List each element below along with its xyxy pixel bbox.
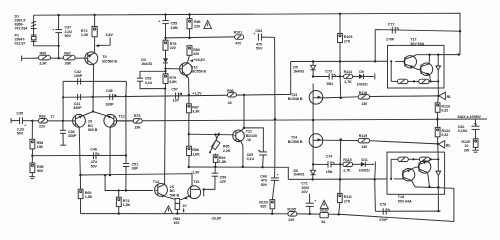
svg-text:2,2K: 2,2K bbox=[223, 149, 231, 153]
svg-text:10M: 10M bbox=[171, 26, 178, 30]
node C53 bottom bbox=[164, 88, 166, 90]
diode bottom box bbox=[436, 171, 441, 175]
svg-text:R63: R63 bbox=[39, 114, 46, 118]
svg-text:1N4151: 1N4151 bbox=[357, 82, 368, 86]
svg-text:2W: 2W bbox=[464, 148, 470, 152]
zobel C82 bbox=[475, 119, 477, 126]
wire mirror rail W2 y=167 with step bbox=[189, 167, 288, 179]
node T21 base bbox=[188, 133, 190, 135]
svg-text:3,3K: 3,3K bbox=[39, 61, 47, 65]
svg-text:1,6K: 1,6K bbox=[192, 152, 200, 156]
svg-text:0,1U: 0,1U bbox=[247, 157, 255, 161]
svg-text:BL: BL bbox=[446, 143, 452, 147]
svg-text:R105: R105 bbox=[287, 207, 296, 211]
svg-text:R119: R119 bbox=[359, 134, 367, 138]
svg-text:0,15U: 0,15U bbox=[458, 129, 468, 133]
svg-text:220: 220 bbox=[288, 218, 294, 222]
wire chain2 bbox=[313, 163, 328, 165]
wire bottom supply rail -23.8V bbox=[81, 213, 289, 215]
capacitor C59 branch bbox=[214, 167, 216, 173]
capacitor C46 bbox=[92, 152, 94, 159]
svg-text:15N: 15N bbox=[326, 170, 333, 174]
node C46 right x126 bbox=[125, 154, 127, 156]
svg-text:15N: 15N bbox=[326, 82, 333, 86]
resistor R76 feedback bbox=[117, 120, 134, 122]
svg-text:C57: C57 bbox=[171, 88, 178, 92]
svg-text:560: 560 bbox=[37, 169, 43, 173]
svg-text:+23,8V: +23,8V bbox=[194, 58, 206, 62]
svg-text:50V: 50V bbox=[256, 47, 263, 51]
wire C42 bypass loop bbox=[63, 80, 126, 82]
svg-text:220: 220 bbox=[39, 125, 45, 129]
warning triangle R83 bbox=[164, 206, 172, 214]
svg-text:-16: -16 bbox=[246, 138, 251, 142]
svg-text:R65: R65 bbox=[40, 51, 47, 55]
svg-text:6,8K: 6,8K bbox=[169, 80, 177, 84]
svg-text:1V: 1V bbox=[182, 204, 187, 208]
node rail120 base tie bbox=[312, 119, 314, 121]
resistor R98 bbox=[227, 93, 236, 97]
svg-text:50V: 50V bbox=[65, 34, 72, 38]
capacitor C41 bbox=[77, 94, 79, 100]
wire T7 collector bbox=[79, 127, 80, 175]
capacitor C38 with ground bbox=[62, 121, 64, 130]
capacitor C55 polarized bbox=[164, 13, 166, 15]
emitter resistor pills top box bbox=[391, 80, 397, 82]
node output rail bbox=[436, 118, 439, 121]
transistor T12 bbox=[104, 114, 117, 127]
resistor R110 bbox=[339, 13, 341, 15]
svg-text:T24: T24 bbox=[291, 135, 298, 139]
node input base joint bbox=[31, 120, 33, 122]
svg-text:1N4001: 1N4001 bbox=[293, 173, 304, 177]
wire collector rail bottom box bbox=[415, 187, 454, 188]
svg-text:220: 220 bbox=[170, 46, 176, 50]
resistor R74 bbox=[118, 189, 120, 191]
svg-text:C35: C35 bbox=[16, 112, 23, 116]
svg-text:0,32: 0,32 bbox=[441, 133, 448, 137]
svg-text:T14: T14 bbox=[153, 180, 160, 184]
svg-text:27K: 27K bbox=[344, 39, 351, 43]
svg-text:10V: 10V bbox=[301, 190, 308, 194]
wire x375 lower bbox=[374, 178, 376, 180]
transistor T17b output bbox=[420, 63, 432, 75]
svg-text:T7: T7 bbox=[50, 115, 54, 119]
svg-text:BC558 B: BC558 B bbox=[288, 140, 303, 144]
svg-text:RL: RL bbox=[447, 95, 453, 99]
svg-text:1,5K: 1,5K bbox=[123, 203, 131, 207]
svg-text:6,8V: 6,8V bbox=[106, 33, 114, 37]
wire box to speaker node bbox=[437, 81, 439, 96]
node W1 T21 collector bbox=[243, 94, 245, 96]
svg-text:33P: 33P bbox=[132, 167, 139, 171]
svg-text:T16: T16 bbox=[193, 180, 199, 184]
capacitor C73 bbox=[328, 73, 330, 79]
svg-text:1,3K: 1,3K bbox=[81, 33, 89, 37]
wire left input leg bbox=[34, 15, 59, 58]
svg-text:13K: 13K bbox=[37, 145, 44, 149]
svg-text:C78: C78 bbox=[380, 203, 387, 207]
capacitor C37 bbox=[58, 15, 60, 29]
capacitor C57 bbox=[175, 92, 177, 98]
svg-text:+: + bbox=[24, 124, 26, 128]
wire inner bias leg bbox=[390, 60, 392, 62]
wire x126 vertical upper bbox=[125, 81, 128, 96]
resistor R88 bbox=[188, 134, 190, 146]
svg-text:1N4151: 1N4151 bbox=[141, 62, 152, 66]
svg-text:1,5K: 1,5K bbox=[85, 195, 93, 199]
diode D9 bbox=[353, 75, 359, 77]
svg-text:546 B: 546 B bbox=[170, 193, 180, 197]
svg-text:330P: 330P bbox=[68, 134, 77, 138]
svg-text:T12: T12 bbox=[119, 114, 125, 118]
svg-text:560 B: 560 B bbox=[88, 128, 98, 132]
emitter resistor pills bottom box bbox=[391, 158, 398, 160]
node chain2 mid bbox=[339, 163, 341, 165]
svg-text:13K: 13K bbox=[134, 126, 141, 130]
resistor R80 bbox=[187, 46, 192, 56]
resistor R115 bbox=[340, 163, 343, 165]
wire diff emitters bbox=[83, 112, 106, 116]
svg-text:220: 220 bbox=[194, 24, 200, 28]
svg-text:T23: T23 bbox=[291, 93, 297, 97]
resistor R65 bbox=[39, 55, 51, 60]
node C42/C41 leg at base wire bbox=[62, 120, 64, 122]
svg-text:470: 470 bbox=[235, 42, 241, 46]
transistor T23 bbox=[309, 91, 323, 105]
wire x274 vertical bbox=[274, 37, 276, 178]
crystal symbol lower bbox=[31, 34, 37, 36]
transistor T10 bbox=[180, 63, 192, 75]
svg-text:+: + bbox=[314, 199, 316, 203]
resistor R111 bbox=[339, 180, 341, 194]
svg-text:C84: C84 bbox=[255, 29, 263, 33]
svg-text:BC558 B: BC558 B bbox=[191, 70, 206, 74]
wire T14 base line bbox=[105, 175, 153, 190]
svg-text:100: 100 bbox=[173, 221, 179, 225]
wire signal node W1 bbox=[63, 62, 291, 98]
resistor R123 bbox=[437, 96, 440, 103]
svg-text:+: + bbox=[158, 19, 160, 23]
capacitor C65 branch bbox=[244, 128, 263, 152]
wire left collector line L3 bbox=[81, 174, 193, 188]
diode D6 bbox=[311, 178, 313, 180]
svg-text:330P: 330P bbox=[73, 106, 82, 110]
svg-text:+1,2V: +1,2V bbox=[192, 92, 202, 96]
node chain2 left bbox=[312, 163, 314, 165]
svg-text:0,1U: 0,1U bbox=[145, 81, 153, 85]
resistor R59 with ground bbox=[31, 156, 33, 163]
capacitor C84 bbox=[257, 33, 259, 40]
svg-text:1,8K: 1,8K bbox=[219, 160, 227, 164]
node left leg W1 bbox=[58, 45, 60, 47]
capacitor C48 bbox=[109, 94, 111, 100]
wire box to C78 node bbox=[437, 187, 439, 211]
capacitor C53 bbox=[140, 71, 166, 78]
svg-text:47P: 47P bbox=[220, 180, 227, 184]
wire output rail y=120 bbox=[117, 119, 487, 121]
node W1 left bbox=[62, 96, 64, 98]
svg-text:270P: 270P bbox=[386, 37, 395, 41]
diode D5 bbox=[312, 62, 314, 66]
resistor R119 bbox=[323, 139, 359, 141]
node T10 base tap bbox=[164, 68, 166, 70]
svg-text:R101: R101 bbox=[234, 31, 243, 35]
wire T14 collector long bbox=[164, 89, 167, 185]
wire y38 R101/C84 bbox=[166, 37, 235, 38]
wire chain1 bbox=[313, 76, 329, 78]
svg-text:+: + bbox=[52, 28, 54, 32]
svg-text:C48: C48 bbox=[106, 89, 113, 93]
wire top supply rail +23.8V bbox=[34, 13, 460, 54]
svg-text:2,7K: 2,7K bbox=[343, 169, 351, 173]
svg-text:BC560 B: BC560 B bbox=[102, 59, 117, 63]
transistor T17a driver bbox=[404, 56, 416, 68]
node chain1 mid bbox=[339, 75, 341, 77]
resistor R105 in rail bbox=[288, 212, 297, 217]
svg-text:50V 64A: 50V 64A bbox=[398, 199, 412, 203]
wire T21 collector up bbox=[241, 95, 244, 131]
svg-text:130: 130 bbox=[361, 102, 367, 106]
wire T21 base bbox=[189, 133, 234, 136]
svg-text:50V: 50V bbox=[17, 132, 24, 136]
svg-text:+: + bbox=[277, 173, 279, 177]
wire C78 branch bbox=[375, 210, 440, 212]
svg-text:82: 82 bbox=[321, 220, 325, 224]
transistor T18a driver bbox=[402, 169, 414, 181]
resistor R79 bbox=[163, 74, 168, 84]
svg-text:50V: 50V bbox=[91, 164, 98, 168]
node chain1 left bbox=[312, 75, 314, 77]
capacitor C77 bbox=[391, 27, 393, 34]
wire x375 top bbox=[374, 60, 376, 62]
svg-text:1N4001: 1N4001 bbox=[293, 69, 304, 73]
svg-text:BC548 B: BC548 B bbox=[288, 97, 303, 101]
resistor R114 bbox=[340, 75, 344, 77]
svg-text:R115: R115 bbox=[343, 158, 351, 162]
wire R67 to T9 base bbox=[75, 57, 85, 59]
svg-text:C46: C46 bbox=[90, 148, 97, 152]
svg-text:50V 65A: 50V 65A bbox=[410, 42, 424, 46]
potentiometer R95 bbox=[215, 135, 216, 139]
svg-text:50V: 50V bbox=[261, 183, 268, 187]
resistor R87 bbox=[188, 95, 190, 104]
transistor T16 bbox=[188, 186, 201, 199]
transistor T14 bbox=[155, 184, 168, 197]
svg-text:R114: R114 bbox=[344, 70, 353, 74]
speaker terminal RL lower bbox=[437, 143, 439, 145]
capacitor C74 bbox=[327, 161, 329, 167]
wire T12 collector bbox=[109, 127, 111, 175]
resistor R103 bbox=[271, 213, 273, 215]
node W1 T9 emitter cross bbox=[92, 96, 94, 98]
svg-text:3,3K: 3,3K bbox=[192, 110, 200, 114]
resistor R107 with warning bbox=[320, 200, 328, 208]
svg-text:43: 43 bbox=[228, 101, 232, 105]
svg-text:0,32: 0,32 bbox=[441, 109, 448, 113]
svg-text:-1,3V: -1,3V bbox=[191, 170, 200, 174]
resistor R83 bbox=[176, 199, 178, 202]
svg-text:270P: 270P bbox=[379, 218, 388, 222]
svg-text:D9: D9 bbox=[359, 70, 364, 74]
node R78 wire y38 bbox=[164, 37, 166, 39]
node C78 right bbox=[437, 210, 439, 212]
capacitor C51 bbox=[125, 155, 127, 163]
transistor T24 bbox=[309, 134, 323, 148]
svg-text:D11: D11 bbox=[361, 158, 367, 162]
svg-text:767,534: 767,534 bbox=[15, 27, 29, 31]
node C53 top bbox=[164, 70, 166, 72]
svg-text:022,97: 022,97 bbox=[15, 41, 26, 45]
output module T17 box bbox=[388, 45, 445, 88]
resistor R67 bbox=[59, 57, 64, 59]
wire collector rail top box bbox=[417, 54, 459, 56]
transistor T18b output bbox=[418, 161, 430, 173]
output module T18 box bbox=[387, 152, 445, 194]
svg-text:820: 820 bbox=[260, 205, 266, 209]
resistor R124 bbox=[437, 119, 439, 127]
node R111 bottom bbox=[338, 213, 340, 215]
capacitor C78 bbox=[382, 208, 384, 214]
wire C46 branch bbox=[32, 154, 126, 156]
node T14 base wire x126 bbox=[125, 189, 127, 191]
resistor R78 bbox=[163, 40, 168, 50]
svg-text:R98: R98 bbox=[227, 89, 234, 93]
transistor T7 bbox=[73, 114, 86, 127]
svg-text:MAX,±-100MV: MAX,±-100MV bbox=[458, 115, 482, 119]
wire VAS rail lower y=179.4 bbox=[288, 178, 403, 181]
resistor R129 with ground bbox=[473, 139, 478, 148]
svg-text:C73: C73 bbox=[325, 69, 332, 73]
resistor R86 bbox=[188, 13, 190, 15]
svg-text:33K: 33K bbox=[65, 61, 72, 65]
wire T21 emitter down bbox=[241, 141, 243, 166]
wire C77 branch bbox=[375, 30, 460, 32]
wire R63 to T7 base bbox=[47, 120, 72, 122]
speaker terminal RL upper bbox=[439, 92, 446, 99]
wire R65 to node bbox=[50, 57, 58, 59]
node W1 x126 bbox=[125, 95, 127, 97]
capacitor C66 bbox=[271, 177, 279, 179]
svg-text:220: 220 bbox=[193, 52, 199, 56]
svg-text:27K: 27K bbox=[344, 199, 351, 203]
svg-text:330P: 330P bbox=[105, 103, 114, 107]
svg-text:-23,8V: -23,8V bbox=[211, 216, 222, 220]
transistor T21 bbox=[233, 130, 245, 142]
svg-text:R76: R76 bbox=[134, 114, 141, 118]
wire lower emitters join bbox=[165, 196, 177, 200]
svg-text:12P: 12P bbox=[173, 99, 180, 103]
resistor R118 bbox=[323, 97, 359, 98]
wire inner bias leg bottom bbox=[390, 178, 392, 180]
svg-text:130: 130 bbox=[361, 145, 367, 149]
svg-text:R107: R107 bbox=[320, 209, 329, 213]
wire x340 upper bbox=[339, 62, 341, 77]
wire speaker node through box bbox=[437, 144, 440, 159]
svg-text:R67: R67 bbox=[64, 51, 71, 55]
diode top box bbox=[436, 66, 441, 70]
input terminal C35 leg bbox=[10, 118, 12, 123]
svg-text:C77: C77 bbox=[388, 22, 395, 26]
node input joint bbox=[57, 57, 59, 59]
wire bottom supply continuation sloped to output module bbox=[341, 188, 454, 221]
transistor T9 bbox=[85, 52, 98, 65]
node W1 R87 bbox=[188, 94, 190, 96]
warning triangle top bbox=[204, 21, 212, 29]
input terminal bbox=[21, 56, 23, 61]
capacitor C35 bbox=[19, 117, 21, 124]
wire VAS rail upper y=61.5 bbox=[291, 60, 405, 62]
node rail1 D5 bbox=[312, 60, 314, 62]
capacitor C42 bbox=[77, 78, 79, 84]
svg-text:1N4151: 1N4151 bbox=[359, 169, 370, 173]
node C77 right bbox=[459, 30, 461, 32]
diode D3 bbox=[163, 58, 168, 62]
svg-text:R118: R118 bbox=[359, 91, 367, 95]
node C37 top bbox=[57, 14, 59, 16]
resistor R94 bbox=[215, 154, 217, 155]
surge arrester symbol upper bbox=[31, 21, 36, 23]
diode D11 bbox=[353, 163, 361, 165]
svg-text:100P: 100P bbox=[74, 74, 83, 78]
resistor R69 bbox=[79, 174, 81, 176]
resistor R72 bbox=[93, 14, 95, 16]
svg-text:2,7K: 2,7K bbox=[344, 80, 352, 84]
node C46 wire left bbox=[31, 155, 33, 157]
resistor R58 bbox=[31, 121, 33, 140]
resistor R63 bbox=[38, 119, 47, 124]
svg-text:C74: C74 bbox=[326, 154, 334, 158]
wire x340 lower bbox=[339, 140, 342, 165]
resistor R101 bbox=[235, 35, 244, 40]
